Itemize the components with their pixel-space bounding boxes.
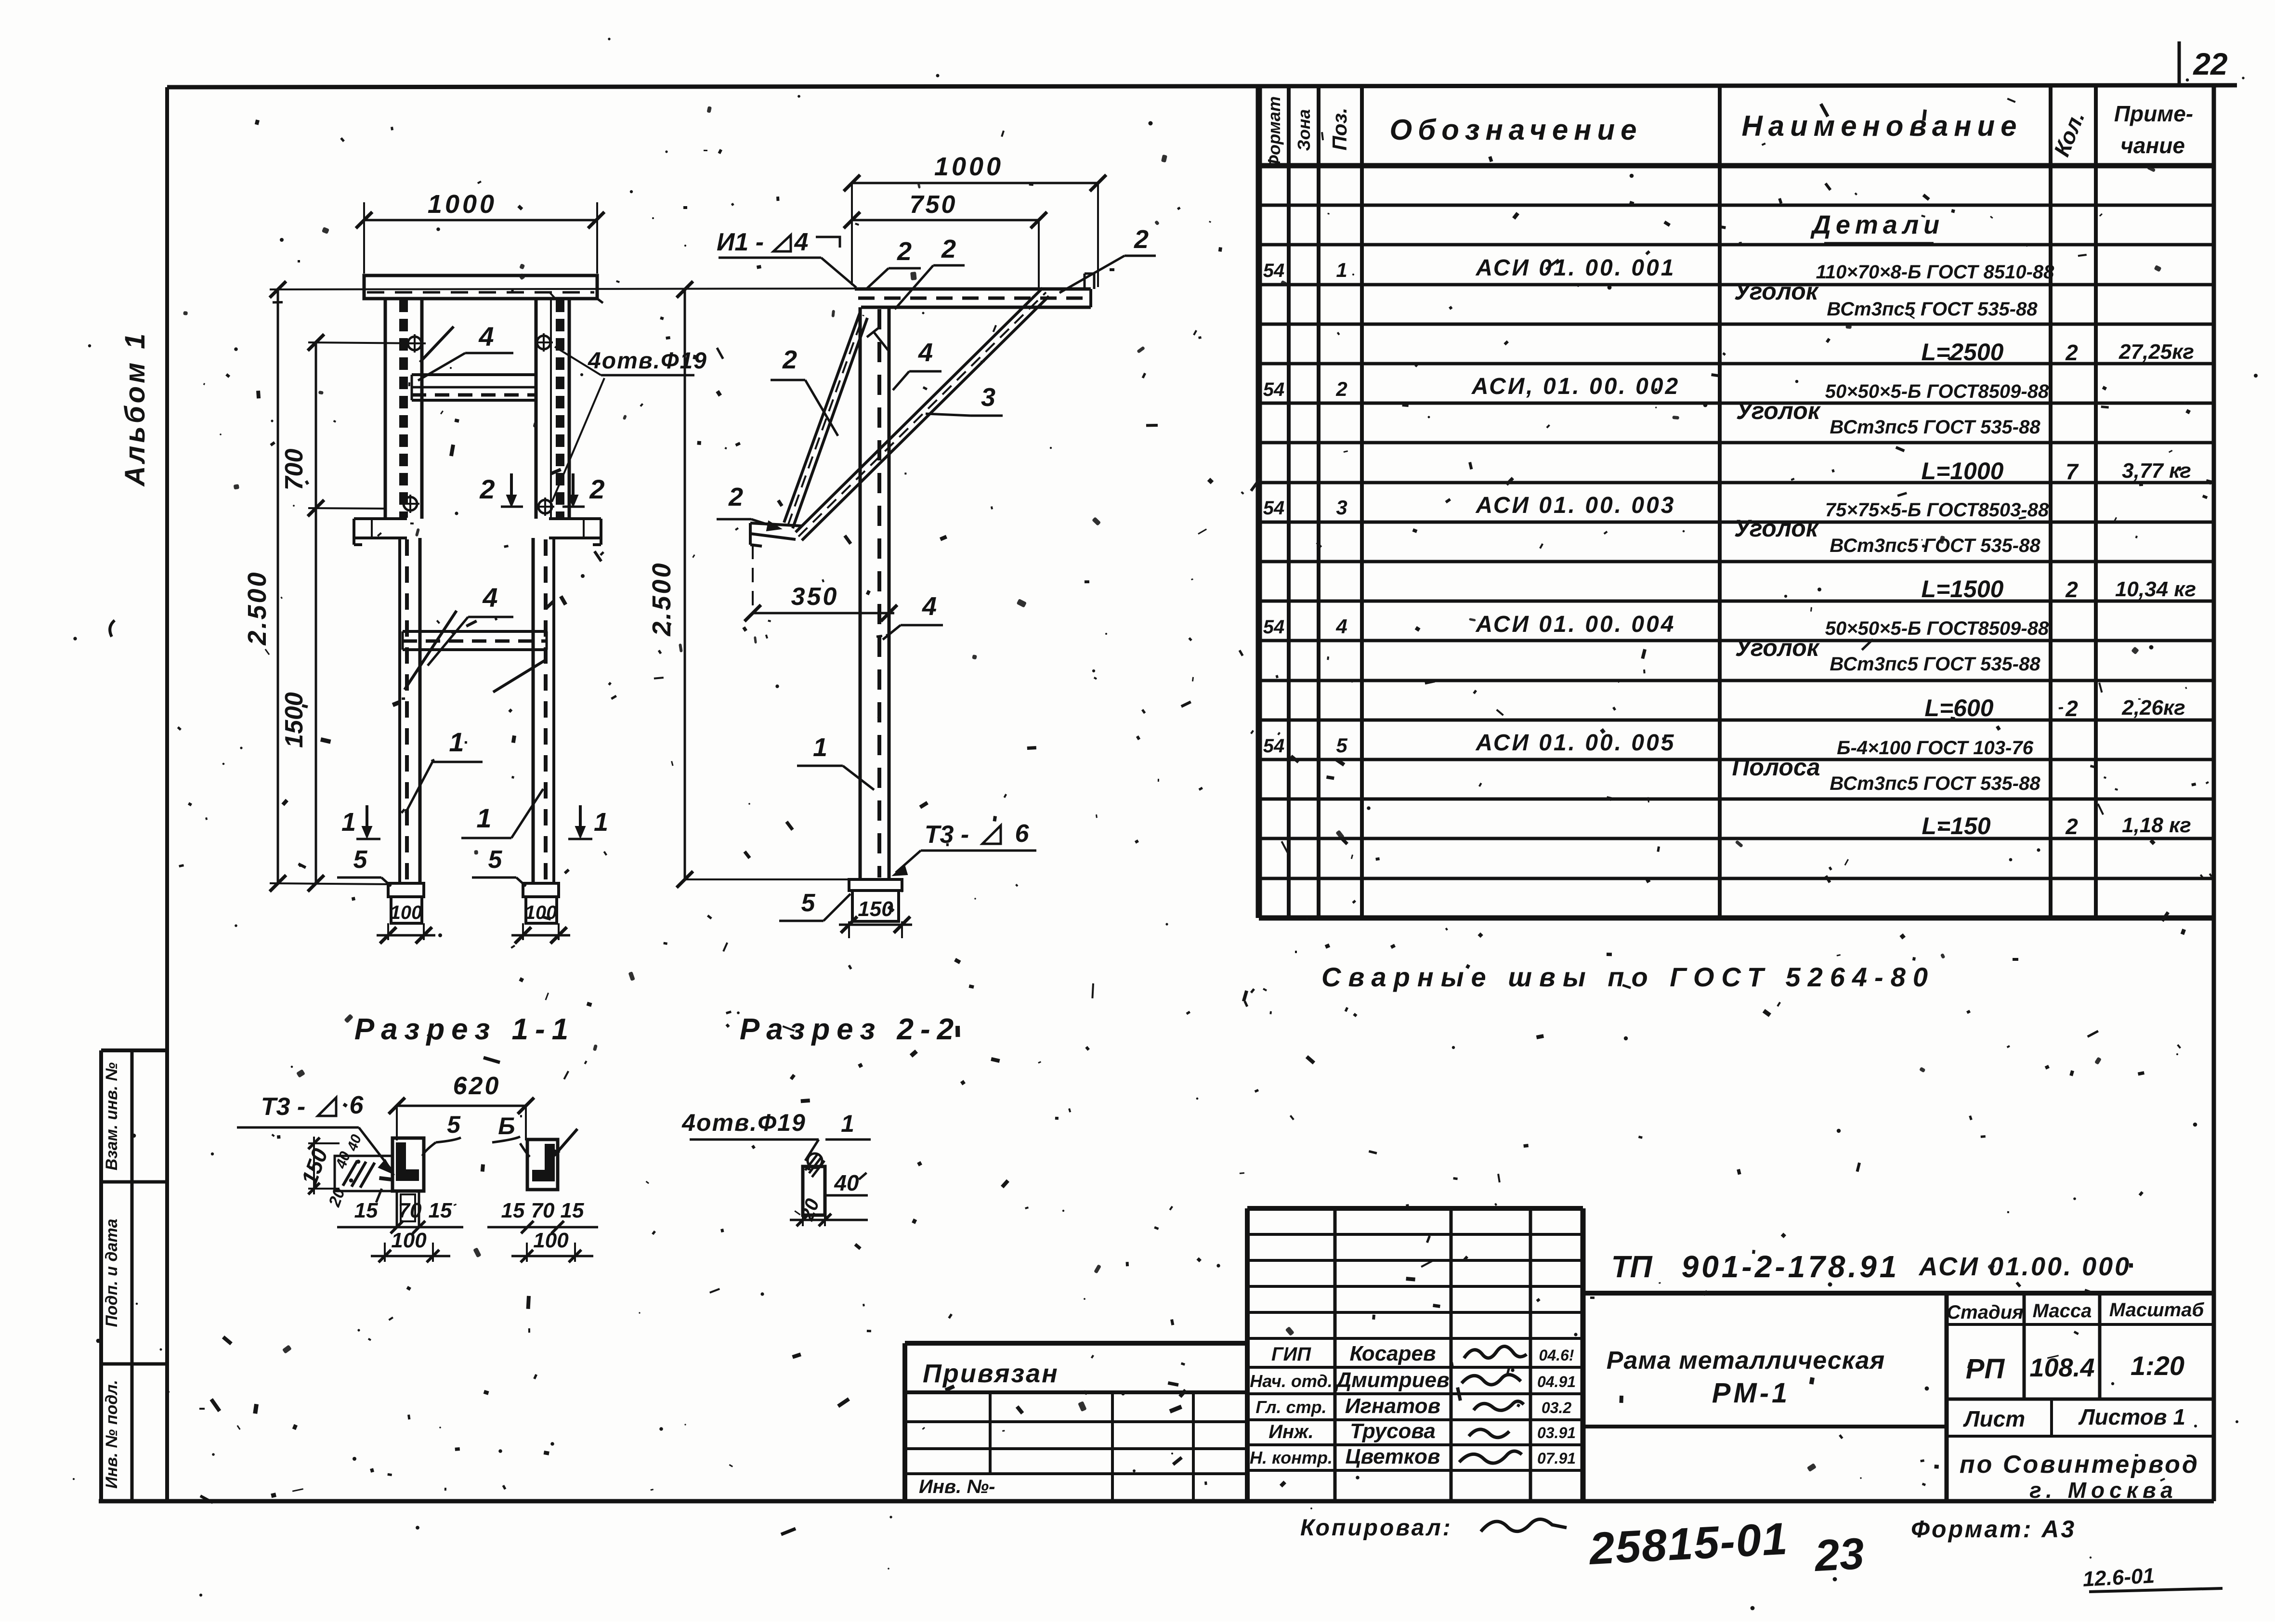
- svg-text:2: 2: [2065, 814, 2078, 839]
- svg-text:100: 100: [533, 1229, 569, 1252]
- svg-text:1000: 1000: [934, 152, 1004, 181]
- label 2 at bracket: [717, 483, 781, 531]
- parts table rows: [1263, 210, 2196, 839]
- svg-text:2: 2: [782, 345, 797, 374]
- svg-text:2: 2: [1134, 225, 1149, 254]
- svg-text:100: 100: [525, 902, 557, 923]
- left view: bolt holes: [401, 333, 554, 516]
- svg-text:АСИ 01.00. 000: АСИ 01.00. 000: [1918, 1252, 2131, 1281]
- svg-text:Приме-: Приме-: [2114, 101, 2193, 126]
- svg-text:Трусова: Трусова: [1350, 1419, 1436, 1443]
- svg-text:4: 4: [1335, 615, 1347, 638]
- middle view: lower bracket: [750, 523, 802, 546]
- svg-text:15: 15: [429, 1199, 452, 1222]
- section marks 1-1 (left view): [341, 805, 608, 839]
- svg-text:2: 2: [941, 235, 956, 263]
- left view: upper crossbar (item 4): [412, 375, 536, 400]
- labels 2 at arm top: [867, 225, 1156, 309]
- left margin stamp column: [101, 1050, 167, 1501]
- svg-text:15: 15: [354, 1199, 378, 1222]
- svg-text:4: 4: [794, 228, 809, 256]
- svg-text:Масштаб: Масштаб: [2109, 1299, 2205, 1321]
- svg-text:АСИ, 01. 00. 002: АСИ, 01. 00. 002: [1471, 374, 1680, 399]
- label 1 left post: [405, 727, 483, 813]
- parts table header: [1264, 96, 2193, 169]
- svg-text:03.91: 03.91: [1537, 1424, 1576, 1441]
- svg-text:АСИ 01. 00. 003: АСИ 01. 00. 003: [1475, 493, 1675, 518]
- svg-text:РМ-1: РМ-1: [1712, 1377, 1791, 1409]
- svg-text:Стадия: Стадия: [1947, 1302, 2023, 1323]
- detail: label B: [492, 1113, 530, 1157]
- svg-text:1,18 кг: 1,18 кг: [2122, 813, 2191, 837]
- svg-text:3: 3: [981, 383, 995, 412]
- svg-text:Гл. стр.: Гл. стр.: [1255, 1397, 1326, 1417]
- svg-text:750: 750: [910, 191, 957, 219]
- svg-text:6: 6: [1015, 820, 1030, 848]
- svg-text:15: 15: [501, 1199, 525, 1222]
- svg-text:07.91: 07.91: [1537, 1450, 1576, 1467]
- svg-text:L=150: L=150: [1922, 812, 1990, 839]
- svg-text:Подп. и дата: Подп. и дата: [103, 1218, 121, 1327]
- svg-text:ВСт3пс5 ГОСТ 535-88: ВСт3пс5 ГОСТ 535-88: [1830, 417, 2040, 438]
- svg-text:1: 1: [813, 733, 827, 762]
- svg-text:75×75×5-Б ГОСТ8503-88: 75×75×5-Б ГОСТ8503-88: [1825, 499, 2049, 521]
- detail: weld label T3-6: [237, 1091, 394, 1174]
- svg-text:Масса: Масса: [2033, 1300, 2092, 1322]
- svg-text:5: 5: [801, 889, 816, 917]
- svg-text:10,34 кг: 10,34 кг: [2115, 577, 2196, 601]
- svg-text:4: 4: [922, 592, 937, 621]
- svg-text:Обозначение: Обозначение: [1389, 114, 1642, 146]
- svg-text:Поз.: Поз.: [1328, 108, 1351, 151]
- middle view: diagonal brace (item 3): [796, 288, 1049, 540]
- svg-text:3,77 кг: 3,77 кг: [2122, 459, 2191, 483]
- svg-text:5: 5: [353, 846, 368, 874]
- middle view: post: [860, 307, 889, 879]
- svg-text:Б-4×100 ГОСТ 103-76: Б-4×100 ГОСТ 103-76: [1837, 737, 2033, 759]
- svg-text:Разрез 1-1: Разрез 1-1: [354, 1013, 575, 1046]
- svg-text:Уголок: Уголок: [1734, 278, 1819, 305]
- svg-text:Инж.: Инж.: [1268, 1421, 1314, 1442]
- footer: inventory scribble: [2082, 1564, 2223, 1592]
- svg-text:40: 40: [834, 1170, 859, 1195]
- footer: copied-by line: [1300, 1513, 2076, 1581]
- title block: linked-project box: [905, 1343, 1247, 1501]
- svg-text:2: 2: [2065, 577, 2078, 602]
- svg-text:Нач. отд.: Нач. отд.: [1250, 1371, 1332, 1391]
- svg-text:Б: Б: [498, 1113, 515, 1139]
- dimension 2500 (middle view): [647, 281, 849, 888]
- svg-text:Инв. № подл.: Инв. № подл.: [103, 1380, 121, 1489]
- detail: dimension 620: [389, 1072, 534, 1140]
- svg-text:54: 54: [1263, 616, 1285, 638]
- detail: plate with 4 holes dia 19: [681, 1109, 871, 1226]
- svg-text:Листов 1: Листов 1: [2078, 1404, 2185, 1429]
- svg-text:Взам. инв. №: Взам. инв. №: [103, 1062, 121, 1171]
- svg-text:54: 54: [1263, 735, 1285, 757]
- svg-text:Формат: А3: Формат: А3: [1911, 1516, 2076, 1543]
- svg-text:04.91: 04.91: [1537, 1373, 1576, 1390]
- svg-text:Копировал:: Копировал:: [1300, 1515, 1452, 1541]
- svg-text:150: 150: [858, 897, 893, 921]
- svg-text:100: 100: [391, 1229, 427, 1252]
- label 4 middle view top: [867, 327, 941, 390]
- left view: left post lower: [400, 538, 420, 883]
- svg-text:2.500: 2.500: [647, 561, 676, 636]
- svg-text:5: 5: [488, 846, 503, 874]
- svg-text:Косарев: Косарев: [1349, 1342, 1436, 1365]
- svg-text:ВСт3пс5 ГОСТ 535-88: ВСт3пс5 ГОСТ 535-88: [1830, 535, 2040, 556]
- left view: top cap plate: [364, 275, 603, 303]
- svg-text:6: 6: [350, 1091, 364, 1119]
- detail B: dimensions below: [487, 1199, 598, 1262]
- svg-text:100: 100: [390, 902, 422, 923]
- dimension 1500 (left view): [280, 508, 324, 891]
- label 5 right foot: [472, 846, 526, 886]
- svg-text:700: 700: [280, 449, 308, 491]
- left view: lower crossbar (item 4): [403, 631, 547, 650]
- svg-text:27,25кг: 27,25кг: [2118, 340, 2194, 364]
- sheet number 22: [2179, 41, 2228, 87]
- label 4 middle view mid: [876, 592, 943, 640]
- svg-text:4: 4: [918, 338, 933, 367]
- svg-text:ВСт3пс5 ГОСТ 535-88: ВСт3пс5 ГОСТ 535-88: [1830, 654, 2040, 675]
- svg-text:1: 1: [449, 727, 464, 757]
- label 4 lower with leader: [405, 582, 547, 692]
- dimension 700 (left view): [280, 334, 426, 516]
- svg-text:5: 5: [447, 1111, 461, 1138]
- svg-text:ВСт3пс5 ГОСТ 535-88: ВСт3пс5 ГОСТ 535-88: [1827, 299, 2038, 320]
- svg-text:2: 2: [1335, 378, 1347, 400]
- svg-text:L=2500: L=2500: [1922, 339, 2004, 366]
- svg-text:3: 3: [1336, 496, 1347, 519]
- svg-text:И1 -: И1 -: [717, 228, 764, 256]
- reference line top level: [270, 288, 857, 289]
- svg-text:4отв.Ф19: 4отв.Ф19: [681, 1109, 806, 1136]
- svg-text:04.6!: 04.6!: [1539, 1347, 1574, 1364]
- svg-text:Детали: Детали: [1810, 210, 1944, 239]
- svg-text:Рама металлическая: Рама металлическая: [1607, 1347, 1885, 1375]
- middle view: foot (item 5): [779, 879, 912, 938]
- svg-text:50×50×5-Б ГОСТ8509-88: 50×50×5-Б ГОСТ8509-88: [1825, 381, 2049, 402]
- left view: foot right (item 5): [511, 883, 570, 943]
- svg-text:ТП: ТП: [1611, 1249, 1653, 1284]
- svg-text:Зона: Зона: [1294, 109, 1314, 151]
- middle view: cantilever arm: [855, 274, 1094, 307]
- svg-text:Игнатов: Игнатов: [1345, 1394, 1440, 1418]
- svg-text:2: 2: [728, 483, 743, 511]
- svg-text:Н. контр.: Н. контр.: [1250, 1448, 1333, 1467]
- detail A: dimensions below: [337, 1199, 463, 1262]
- label 4 upper with leader: [418, 321, 513, 380]
- svg-text:Дмитриев: Дмитриев: [1334, 1368, 1449, 1392]
- svg-text:54: 54: [1263, 498, 1285, 519]
- svg-text:50×50×5-Б ГОСТ8509-88: 50×50×5-Б ГОСТ8509-88: [1825, 618, 2049, 639]
- svg-text:L=600: L=600: [1924, 694, 1993, 721]
- svg-text:Лист: Лист: [1963, 1406, 2025, 1431]
- detail: channel section B: [527, 1129, 577, 1190]
- svg-text:Альбом 1: Альбом 1: [119, 330, 151, 487]
- dimension 350 (middle view): [745, 545, 897, 621]
- weld label T3-6: [893, 820, 1036, 876]
- svg-text:108.4: 108.4: [2029, 1353, 2094, 1382]
- svg-text:по Совинтервод: по Совинтервод: [1960, 1451, 2199, 1479]
- title block: staff/signature table: [1247, 1208, 1583, 1501]
- svg-text:Разрез 2-2: Разрез 2-2: [740, 1013, 960, 1046]
- left view: left post upper: [385, 299, 422, 519]
- left view: flange tab right: [549, 519, 601, 545]
- svg-text:Привязан: Привязан: [923, 1359, 1059, 1388]
- stray scan marks: [110, 620, 796, 1534]
- dimension 1000 (middle view): [844, 152, 1106, 287]
- scan blotches: [183, 106, 2161, 1472]
- label 1 right post: [461, 789, 543, 838]
- detail: label 5: [422, 1111, 461, 1156]
- svg-text:1: 1: [594, 808, 608, 837]
- svg-text:1: 1: [341, 808, 356, 837]
- svg-text:23: 23: [1813, 1529, 1866, 1581]
- svg-text:54: 54: [1263, 260, 1285, 281]
- svg-text:Уголок: Уголок: [1735, 634, 1820, 661]
- weld label I1-4: [717, 228, 856, 288]
- svg-text:2: 2: [2065, 696, 2078, 721]
- svg-text:Уголок: Уголок: [1736, 397, 1821, 424]
- label 5 left foot: [337, 846, 391, 886]
- svg-text:L=1500: L=1500: [1922, 576, 2004, 602]
- svg-text:АСИ 01. 00. 004: АСИ 01. 00. 004: [1475, 612, 1675, 637]
- svg-text:Формат: Формат: [1264, 96, 1284, 169]
- dimension 2500 (left view): [243, 281, 391, 891]
- left view: right post upper: [536, 299, 569, 519]
- svg-text:Т3 -: Т3 -: [261, 1093, 305, 1121]
- label 2 left brace: [771, 345, 838, 436]
- dimension 1000 (left view): [356, 190, 604, 274]
- detail: channel section A: [335, 1138, 424, 1226]
- svg-text:4: 4: [482, 582, 497, 613]
- left view: right post lower: [533, 538, 554, 883]
- svg-text:2: 2: [479, 474, 495, 504]
- dimension 750 (middle view): [844, 191, 1047, 289]
- svg-text:350: 350: [791, 583, 839, 611]
- svg-text:ГИП: ГИП: [1271, 1344, 1311, 1365]
- left view: foot left (item 5): [377, 883, 435, 943]
- svg-text:12.6-01: 12.6-01: [2082, 1564, 2155, 1591]
- svg-text:110×70×8-Б ГОСТ 8510-88: 110×70×8-Б ГОСТ 8510-88: [1816, 262, 2055, 283]
- svg-text:АСИ 01. 00. 001: АСИ 01. 00. 001: [1475, 255, 1675, 281]
- svg-text:Уголок: Уголок: [1734, 515, 1819, 542]
- svg-text:АСИ 01. 00. 005: АСИ 01. 00. 005: [1475, 730, 1675, 756]
- svg-text:70: 70: [398, 1199, 422, 1222]
- svg-text:1000: 1000: [428, 190, 497, 219]
- svg-text:7: 7: [2066, 459, 2079, 484]
- svg-text:901-2-178.91: 901-2-178.91: [1682, 1249, 1900, 1284]
- svg-text:2: 2: [2065, 340, 2078, 365]
- label 1 middle view: [797, 733, 874, 790]
- svg-text:1:20: 1:20: [2131, 1350, 2184, 1381]
- svg-text:Наименование: Наименование: [1741, 110, 2022, 142]
- detail A: side dimensions: [296, 1132, 365, 1209]
- svg-text:2: 2: [589, 474, 604, 504]
- svg-text:25815-01: 25815-01: [1587, 1513, 1790, 1574]
- svg-text:Полоса: Полоса: [1732, 754, 1820, 781]
- svg-text:15: 15: [561, 1199, 584, 1222]
- svg-text:5: 5: [1336, 734, 1347, 757]
- svg-text:2.500: 2.500: [243, 570, 272, 645]
- svg-text:2,26кг: 2,26кг: [2121, 696, 2185, 720]
- svg-text:22: 22: [2193, 47, 2227, 81]
- label: 4 holes dia 19: [552, 347, 707, 502]
- title block: main stamp: [1583, 1208, 2213, 1503]
- svg-text:1: 1: [476, 803, 491, 833]
- svg-text:70: 70: [531, 1199, 555, 1222]
- parts table grid: [1259, 87, 2214, 918]
- svg-text:54: 54: [1263, 379, 1285, 400]
- svg-text:РП: РП: [1966, 1353, 2005, 1385]
- svg-text:03.2: 03.2: [1542, 1399, 1571, 1416]
- svg-text:4: 4: [478, 321, 494, 352]
- label 3: [926, 383, 1003, 416]
- svg-text:чание: чание: [2120, 133, 2185, 158]
- svg-text:1: 1: [1336, 259, 1347, 281]
- svg-text:2: 2: [897, 237, 912, 266]
- svg-text:Инв. №-: Инв. №-: [919, 1476, 995, 1497]
- svg-text:1500: 1500: [280, 692, 308, 748]
- svg-text:г. Москва: г. Москва: [2029, 1478, 2178, 1503]
- svg-text:L=1000: L=1000: [1922, 458, 2004, 485]
- middle view: steep brace (item 2): [784, 312, 867, 528]
- svg-text:1: 1: [841, 1110, 854, 1137]
- svg-text:Цветков: Цветков: [1346, 1445, 1440, 1468]
- left view: flange tab left: [354, 519, 407, 545]
- svg-text:ВСт3пс5 ГОСТ 535-88: ВСт3пс5 ГОСТ 535-88: [1830, 773, 2040, 794]
- svg-text:4отв.Ф19: 4отв.Ф19: [588, 348, 707, 374]
- section marks 2-2 (left view): [479, 473, 604, 507]
